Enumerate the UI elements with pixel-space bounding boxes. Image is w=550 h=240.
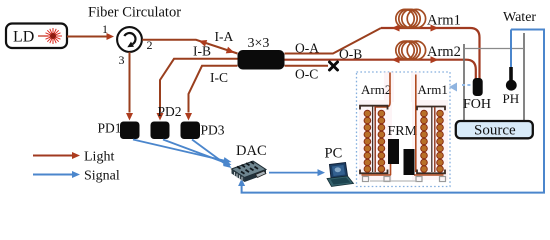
svg-text:FRM: FRM (388, 124, 418, 139)
arrowhead I-A toward circulator (199, 40, 208, 47)
arrowhead Arm1 left (392, 25, 400, 32)
bead column right mandrel A (421, 110, 428, 172)
signal wire PD1 to DAC (133, 140, 226, 162)
svg-text:PD2: PD2 (158, 104, 182, 119)
bottom bar (360, 170, 388, 174)
water tank left wall (463, 44, 465, 122)
fiber bottom run (414, 174, 444, 176)
wire I-A: circulator port2 to coupler (142, 40, 237, 54)
fiber coil Arm2 (396, 41, 426, 59)
svg-text:FOH: FOH (463, 97, 491, 112)
PH hydrophone lead (blue) (510, 30, 512, 69)
arrowhead Arm2 left (392, 56, 400, 63)
svg-text:I-A: I-A (215, 29, 234, 44)
svg-text:3×3: 3×3 (248, 36, 270, 51)
floor line (370, 180, 417, 182)
core posts (431, 107, 433, 172)
right mandrel (Arm1 detail) (414, 75, 445, 176)
bottom bar (417, 170, 445, 174)
dashed detail box (357, 72, 451, 187)
laser starburst (44, 28, 62, 44)
PH stem (509, 67, 513, 81)
svg-text:3: 3 (119, 53, 125, 67)
water surface line (464, 48, 524, 50)
svg-text:Arm2: Arm2 (427, 44, 461, 60)
signal wire PD2 to DAC (163, 140, 226, 164)
wire O-B / Arm2 line into tank (285, 60, 476, 80)
core posts (372, 106, 374, 172)
svg-text:Signal: Signal (84, 169, 120, 184)
arrowhead Arm2 right (431, 56, 439, 63)
svg-text:PC: PC (325, 146, 343, 162)
photodetector PD2 (151, 122, 170, 140)
photodetector PD3 (181, 122, 201, 140)
PC laptop (327, 163, 354, 187)
arrowhead I-A toward coupler (226, 47, 235, 54)
dashed pointer arrow FOH to detail box (449, 83, 471, 92)
terminator X on O-C (330, 62, 338, 70)
svg-text:LD: LD (13, 29, 34, 46)
FOH sensor body (473, 78, 483, 96)
svg-text:PD1: PD1 (98, 121, 122, 136)
top bar (417, 107, 445, 111)
wire circulator port3 to PD1 (129, 52, 131, 112)
arrowhead into DAC bottom (238, 179, 245, 187)
svg-text:DAC: DAC (236, 143, 267, 159)
svg-text:I-B: I-B (193, 44, 211, 59)
signal wire PD3 to DAC (192, 140, 226, 165)
svg-text:O-A: O-A (295, 41, 319, 56)
FRM mirror block right (404, 149, 415, 175)
legend light arrow (33, 155, 72, 157)
arrowhead Arm1 right (431, 25, 439, 32)
wire I-B: coupler to PD2 (160, 59, 238, 113)
svg-text:O-B: O-B (339, 47, 362, 62)
svg-text:Water: Water (503, 10, 536, 25)
svg-text:Arm1: Arm1 (418, 82, 448, 97)
svg-text:PD3: PD3 (201, 123, 225, 138)
svg-text:1: 1 (102, 22, 108, 36)
wire Arm1 line into tank (381, 28, 480, 80)
coupler 3x3 (238, 50, 285, 70)
svg-text:Arm2: Arm2 (361, 82, 391, 97)
Source box (456, 121, 533, 138)
fiber entry left mandrel (375, 73, 390, 112)
signal wire DAC to PC (269, 172, 318, 174)
fiber circulator U1 (117, 27, 142, 52)
compression tint behind mandrels (359, 72, 448, 180)
fiber bottom run (362, 174, 392, 176)
wire I-C: coupler to PD3 (189, 66, 238, 113)
left mandrel (Arm2 detail) (360, 73, 391, 176)
svg-text:O-C: O-C (295, 67, 318, 82)
wire O-A: coupler to Arm1 row (285, 28, 382, 54)
mandrel feet (363, 177, 446, 182)
svg-text:Source: Source (474, 123, 516, 139)
FRM mirror block left (388, 139, 399, 164)
svg-text:I-C: I-C (210, 70, 228, 85)
svg-text:PH: PH (503, 91, 520, 106)
svg-text:Fiber Circulator: Fiber Circulator (88, 5, 181, 21)
legend signal arrow (33, 174, 72, 176)
svg-text:Arm1: Arm1 (427, 13, 461, 29)
wire O-C terminated (285, 65, 329, 67)
bead column left mandrel B (378, 110, 385, 172)
laser diode LD box (6, 24, 67, 49)
DAC device (232, 161, 267, 182)
bead column right mandrel B (437, 110, 444, 172)
top bar (360, 106, 388, 110)
bead column left mandrel A (364, 110, 371, 172)
water tank right wall (523, 33, 525, 122)
wire LD to circulator port 1 (67, 36, 107, 38)
fiber entry right mandrel (415, 75, 417, 173)
photodetector PD1 (120, 122, 140, 140)
PH ball (506, 80, 517, 91)
svg-text:Light: Light (84, 150, 114, 165)
signal cable PH to DAC (blue return path) (242, 30, 544, 193)
fiber coil Arm1 (396, 9, 426, 27)
